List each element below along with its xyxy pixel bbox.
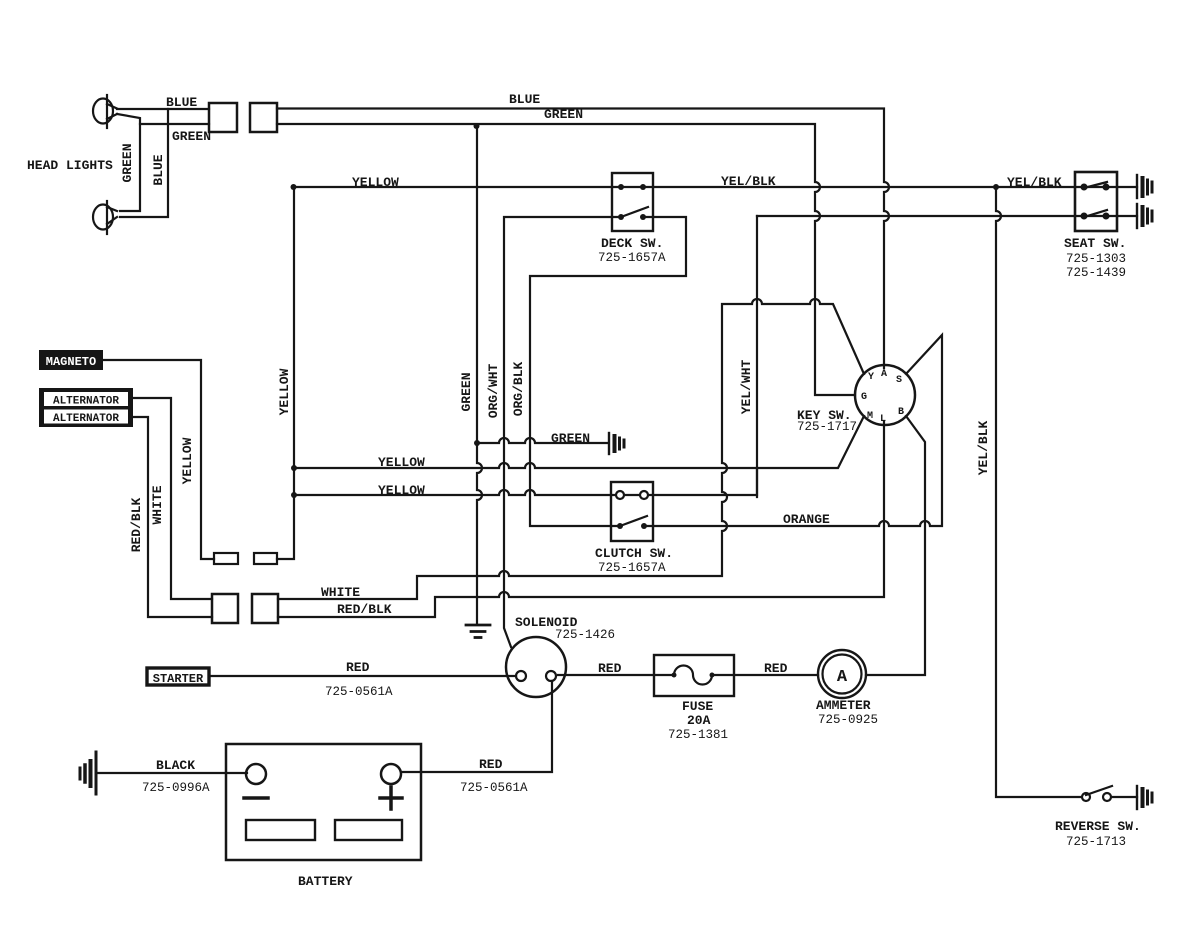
node yellow bus 2 [291,492,297,498]
wire starter red [210,675,516,677]
svg-text:FUSE: FUSE [682,699,713,714]
svg-text:A: A [837,668,848,687]
wire green to connector [140,123,209,125]
svg-text:WHITE: WHITE [321,585,360,600]
svg-text:RED: RED [598,661,622,676]
svg-text:HEAD LIGHTS: HEAD LIGHTS [27,158,113,173]
wire blue main run to key A [277,109,889,369]
svg-text:A: A [881,369,887,380]
svg-text:YEL/BLK: YEL/BLK [976,420,991,475]
svg-text:GREEN: GREEN [172,129,211,144]
wire magneto yellow [102,360,214,559]
svg-text:CLUTCH SW.: CLUTCH SW. [595,546,673,561]
node yellow bus 1 [291,465,297,471]
svg-text:BLUE: BLUE [151,154,166,185]
wire key B to ammeter [866,416,925,675]
ground green bottom [466,625,490,638]
svg-text:GREEN: GREEN [551,431,590,446]
svg-text:725-1439: 725-1439 [1066,266,1126,280]
ground seat lower [1137,204,1152,228]
solenoid K1 [506,637,566,697]
wire green main run to key G [277,124,855,395]
svg-text:DECK SW.: DECK SW. [601,236,663,251]
svg-text:725-1657A: 725-1657A [598,561,666,575]
wire yellow bus vertical [277,187,294,559]
starter terminal box [147,668,209,686]
svg-text:B: B [898,407,904,418]
svg-text:M: M [867,411,873,422]
wire green vertical drop to ground [477,126,482,624]
svg-text:REVERSE SW.: REVERSE SW. [1055,819,1141,834]
svg-text:WHITE: WHITE [150,485,165,524]
node green mid tap [474,440,480,446]
wire org-blk deck to clutch [530,217,686,526]
clutch switch SW2 [611,482,653,541]
svg-text:ALTERNATOR: ALTERNATOR [53,396,119,408]
svg-text:725-1713: 725-1713 [1066,835,1126,849]
reverse switch SW4 [1082,786,1112,801]
svg-text:S: S [896,375,902,386]
svg-text:GREEN: GREEN [544,107,583,122]
svg-text:BATTERY: BATTERY [298,874,353,889]
node yellow corner [291,184,297,190]
svg-text:YELLOW: YELLOW [378,483,425,498]
svg-text:RED: RED [479,757,503,772]
svg-text:SEAT SW.: SEAT SW. [1064,236,1126,251]
svg-text:YEL/BLK: YEL/BLK [1007,175,1062,190]
svg-text:YEL/BLK: YEL/BLK [721,174,776,189]
svg-text:GREEN: GREEN [120,143,135,182]
svg-text:ORG/WHT: ORG/WHT [486,363,501,418]
svg-text:725-1426: 725-1426 [555,628,615,642]
svg-text:YELLOW: YELLOW [277,368,292,415]
svg-text:BLACK: BLACK [156,758,195,773]
wire battery black to ground [96,772,247,774]
wire white to key Y [278,299,864,599]
connector block C2 headlights [250,103,277,132]
wire alternator red-blk [133,417,212,617]
svg-text:AMMETER: AMMETER [816,698,871,713]
wire yellow mid 1 to key M [294,416,864,468]
svg-text:YEL/WHT: YEL/WHT [739,359,754,414]
ground green mid [609,433,624,454]
svg-text:725-0561A: 725-0561A [325,685,393,699]
wire red-blk to key L [278,422,884,617]
wire seat switch lower run [757,215,1137,217]
deck switch SW1 [612,173,653,231]
svg-text:YELLOW: YELLOW [180,437,195,484]
key switch U1 [855,365,915,425]
svg-text:L: L [880,414,886,425]
connector pair magneto [214,553,277,564]
wire alternator white [133,398,212,599]
wire green mid to ground [477,438,607,443]
ground reverse switch [1137,786,1152,809]
svg-text:725-1381: 725-1381 [668,728,728,742]
ground seat upper [1137,175,1152,198]
node yel-blk tap [993,184,999,190]
svg-text:YELLOW: YELLOW [378,455,425,470]
wire blue headlight top [117,108,209,110]
node green tap [474,123,480,129]
svg-text:725-1717: 725-1717 [797,420,857,434]
svg-text:725-1303: 725-1303 [1066,252,1126,266]
svg-text:Y: Y [868,372,874,383]
headlight lamp 1 [93,95,117,128]
svg-text:RED/BLK: RED/BLK [129,497,144,552]
wire blue lamp jumper vertical [120,109,168,217]
ammeter M1 [818,650,866,698]
JUNCTION DOTS [291,123,1000,498]
wire yel-wht vertical [756,216,758,497]
svg-text:MAGNETO: MAGNETO [46,355,96,369]
svg-text:725-0925: 725-0925 [818,713,878,727]
svg-text:RED/BLK: RED/BLK [337,602,392,617]
svg-text:BLUE: BLUE [166,95,197,110]
seat switch SW3 [1075,172,1117,231]
connector square S2 alternator [252,594,278,623]
connector square S1 alternator [212,594,238,623]
headlight lamp 2 [93,201,117,234]
wire yellow / yel-blk top run [294,186,1137,188]
wire orange clutch to key S [644,335,942,526]
svg-text:ORG/BLK: ORG/BLK [511,361,526,416]
wire org-wht deck to solenoid [504,217,621,647]
svg-text:RED: RED [346,660,370,675]
wire ammeter to fuse [712,674,818,676]
svg-text:725-0996A: 725-0996A [142,781,210,795]
svg-text:20A: 20A [687,713,711,728]
alternator terminal boxes [39,388,133,427]
connector block C1 headlights [209,103,237,132]
fuse F1 [654,655,734,696]
wire solenoid to fuse [558,674,674,676]
wire yellow mid 2 through clutch [294,468,757,495]
svg-text:STARTER: STARTER [153,672,204,686]
wire yel-blk vertical to reverse switch [996,187,1081,797]
svg-text:ALTERNATOR: ALTERNATOR [53,413,119,425]
wire solenoid to battery red [401,681,552,772]
svg-text:ORANGE: ORANGE [783,512,830,527]
battery BT1 [226,744,421,860]
wire green lamp1 drop [117,114,140,211]
svg-text:GREEN: GREEN [459,372,474,411]
magneto terminal box [39,350,103,370]
svg-text:RED: RED [764,661,788,676]
wire reverse switch to ground [1110,796,1137,798]
svg-text:725-1657A: 725-1657A [598,251,666,265]
svg-text:G: G [861,392,867,403]
svg-text:725-0561A: 725-0561A [460,781,528,795]
ground battery left [80,752,96,794]
svg-text:YELLOW: YELLOW [352,175,399,190]
svg-text:BLUE: BLUE [509,92,540,107]
